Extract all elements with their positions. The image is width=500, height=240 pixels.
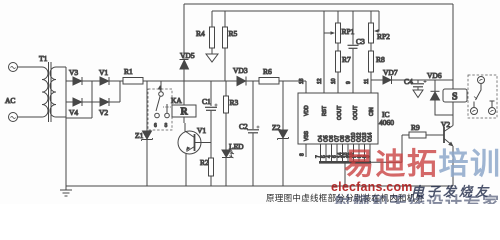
svg-text:16: 16: [299, 78, 305, 84]
svg-text:V1: V1: [99, 68, 108, 77]
svg-text:CIN: CIN: [369, 107, 375, 116]
svg-text:6: 6: [154, 123, 157, 129]
watermark yiditu red: [344, 150, 500, 180]
watermark elecfans.com: [331, 180, 413, 194]
svg-text:V3: V3: [69, 68, 78, 77]
svg-text:VSS: VSS: [304, 130, 310, 141]
svg-text:VD7: VD7: [383, 68, 398, 77]
sounder S box: [443, 89, 467, 103]
pin label OOUT1: [337, 106, 343, 120]
label pin 6: [154, 123, 157, 129]
potentiometer RP2: [369, 11, 380, 51]
transformer T1: [42, 62, 56, 122]
label C4: [404, 77, 413, 86]
svg-text:12: 12: [317, 78, 323, 84]
relay coil R: [172, 81, 196, 123]
zener Z2: [278, 81, 289, 186]
svg-text:R5: R5: [229, 29, 238, 38]
label C1: [202, 97, 211, 106]
wire emitter down: [452, 146, 454, 186]
label VD5: [180, 51, 195, 60]
pin number 12: [317, 78, 323, 84]
ground symbol: [60, 186, 72, 196]
svg-text:R6: R6: [263, 67, 272, 76]
wire bridge right column: [119, 81, 121, 102]
svg-text:10: 10: [331, 78, 337, 84]
switch terminal right: [489, 101, 496, 115]
wire bridge bottom link: [66, 117, 92, 119]
pin number 9: [346, 81, 352, 84]
wire secondary bottom: [56, 116, 66, 118]
transistor V2: [444, 126, 454, 147]
terminal AC1: [9, 63, 18, 72]
resistor R3: [224, 81, 229, 150]
label V2: [441, 120, 450, 129]
mechanical link dotted: [163, 106, 172, 108]
label R9: [411, 123, 420, 132]
watermark dianzifashaoyou script: [411, 181, 491, 200]
label Z1: [135, 131, 144, 140]
svg-text:V2: V2: [441, 120, 450, 129]
bus joining line: [319, 161, 371, 164]
wire AC top: [18, 66, 43, 68]
switch armature: [474, 84, 481, 100]
wire main rail: [143, 80, 306, 82]
contact terminal 6: [155, 113, 160, 118]
svg-text:VD5: VD5: [180, 51, 195, 60]
label R1: [124, 67, 133, 76]
label R4: [196, 29, 205, 38]
svg-text:R1: R1: [124, 67, 133, 76]
label R5: [229, 29, 238, 38]
svg-text:11: 11: [364, 79, 370, 84]
wire bus to R9: [371, 135, 409, 162]
wire contact feed: [160, 81, 162, 92]
svg-text:VDD: VDD: [304, 105, 310, 116]
wire negative column to ground rail: [65, 118, 67, 186]
switch terminal left: [471, 102, 478, 115]
pin number 16: [299, 78, 305, 84]
label VD7: [383, 68, 398, 77]
svg-text:V1: V1: [197, 126, 206, 135]
svg-text:9: 9: [346, 81, 352, 84]
label R6: [263, 67, 272, 76]
label V4: [69, 108, 78, 117]
transistor V1: [178, 123, 201, 186]
label V3: [69, 68, 78, 77]
label IC 4060: [379, 110, 394, 127]
svg-text:4060: 4060: [379, 118, 394, 127]
wire bridge bottom row: [66, 101, 120, 103]
zener Z1: [142, 81, 153, 186]
wire V1 base: [195, 142, 212, 144]
capacitor C4: [412, 80, 427, 98]
diode VD3: [237, 77, 246, 86]
label KA: [171, 96, 182, 105]
pin number 8: [300, 153, 306, 156]
svg-text:4: 4: [159, 86, 162, 92]
resistor R9: [409, 132, 426, 138]
svg-text:RST: RST: [322, 106, 328, 116]
svg-text:O14: O14: [368, 132, 374, 142]
svg-text:T1: T1: [39, 54, 48, 63]
wire pin16 drop: [305, 81, 307, 93]
svg-text:V2: V2: [99, 108, 108, 117]
label RP2: [377, 32, 390, 41]
svg-text:R8: R8: [376, 55, 385, 64]
pin label OOUT2: [353, 106, 359, 120]
label V2: [99, 108, 108, 117]
svg-text:C4: C4: [404, 77, 413, 86]
resistor R4: [210, 11, 215, 54]
label R7: [342, 55, 351, 64]
output pin stubs: [321, 144, 371, 161]
svg-text:VD6: VD6: [427, 71, 442, 80]
label C3: [356, 37, 365, 46]
wire top rail 1: [184, 3, 453, 5]
svg-text:R4: R4: [196, 29, 205, 38]
pin label RST: [322, 106, 328, 116]
switch common terminal: [478, 77, 485, 84]
wire bridge left column: [65, 67, 67, 118]
capacitor C2: [247, 81, 260, 186]
wire S to collector: [452, 102, 454, 126]
svg-text:R: R: [181, 107, 189, 118]
watermark RF antenna experts: [334, 189, 500, 214]
svg-text:Z2: Z2: [272, 123, 281, 132]
diode VD7: [371, 76, 453, 84]
svg-text:AC: AC: [5, 96, 15, 105]
label V1: [197, 126, 206, 135]
pin number 11: [364, 79, 370, 84]
wire AC bottom: [18, 116, 43, 118]
label LED: [229, 142, 244, 151]
output pin labels: [318, 132, 374, 142]
label R2: [200, 158, 209, 167]
wire main right column upper: [452, 4, 454, 89]
capacitor C1: [205, 81, 218, 143]
svg-text:R9: R9: [411, 123, 420, 132]
label V1: [99, 68, 108, 77]
diode VD6: [431, 80, 454, 115]
pin label CIN: [369, 107, 375, 116]
resistor R1: [123, 78, 143, 85]
resistor R2: [209, 143, 214, 187]
wire pin12 column: [323, 11, 325, 93]
label VD6: [427, 71, 442, 80]
label VD3: [233, 66, 248, 75]
pin label VSS: [304, 130, 310, 141]
diode V3: [73, 77, 82, 85]
label R3: [230, 98, 239, 107]
svg-text:LED: LED: [229, 142, 244, 151]
caption text: [266, 192, 500, 204]
svg-text:R3: R3: [230, 98, 239, 107]
svg-text:8: 8: [300, 153, 306, 156]
label pin 8: [165, 123, 168, 129]
svg-text:RP2: RP2: [377, 32, 390, 41]
diode VD5: [180, 4, 189, 81]
pin number 10: [331, 78, 337, 84]
resistor R8: [369, 51, 374, 93]
wire top rail 2: [212, 10, 379, 12]
wire secondary top: [56, 66, 66, 68]
contact armature: [156, 97, 160, 112]
label pin 4: [159, 86, 162, 92]
relay contact KA dashed box: [148, 89, 172, 130]
potentiometer RP1: [324, 11, 341, 51]
svg-text:C3: C3: [356, 37, 365, 46]
resistor R6: [259, 78, 279, 85]
output pin numbers: [316, 152, 372, 158]
wire bus to ground rail: [344, 164, 346, 187]
svg-text:R7: R7: [342, 55, 351, 64]
svg-text:VD3: VD3: [233, 66, 248, 75]
wire bridge mid column: [91, 81, 93, 118]
svg-text:KA: KA: [171, 96, 182, 105]
label RP1: [342, 27, 355, 36]
svg-text:OOUT: OOUT: [337, 106, 343, 120]
wire bridge top row: [66, 80, 123, 82]
contact common terminal 4: [159, 92, 164, 97]
label C2: [239, 122, 248, 131]
svg-text:V4: V4: [69, 108, 78, 117]
label R8: [376, 55, 385, 64]
diode V1: [100, 77, 109, 85]
resistor R5: [223, 11, 228, 81]
svg-text:S: S: [452, 92, 458, 103]
capacitor C3: [348, 11, 359, 93]
svg-text:R2: R2: [200, 158, 209, 167]
label Z2: [272, 123, 281, 132]
resistor R7: [336, 51, 341, 93]
svg-text:OOUT: OOUT: [353, 106, 359, 120]
diode V2: [100, 98, 109, 106]
wire R9 to V2 base: [426, 134, 444, 136]
label AC: [5, 96, 15, 105]
terminal AC2: [9, 113, 18, 122]
IC 4060 box: [298, 93, 378, 144]
external switch dashed box: [468, 75, 497, 118]
svg-text:C2: C2: [239, 122, 248, 131]
pin VSS stub: [305, 144, 307, 157]
ground arrow under R4: [206, 54, 218, 62]
svg-text:8: 8: [165, 123, 168, 129]
LED: [222, 150, 234, 186]
pin label VDD: [304, 105, 310, 116]
contact terminal 8: [165, 104, 170, 118]
svg-text:C1: C1: [202, 97, 211, 106]
svg-text:Z1: Z1: [135, 131, 144, 140]
diode V4: [73, 98, 82, 106]
ground rail: [66, 185, 453, 187]
label T1: [39, 54, 48, 63]
